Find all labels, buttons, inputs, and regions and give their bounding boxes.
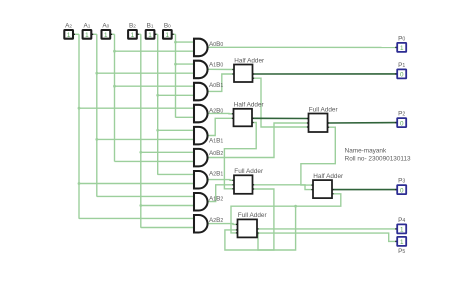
wire A1B0 output to HA1 in1 — [208, 68, 234, 70]
svg-text:A1B2: A1B2 — [209, 196, 223, 203]
wire FA2 carry to FA3 in2 — [225, 189, 274, 250]
subcircuit HA2 (Half Adder) — [232, 102, 265, 127]
wire FA2 sum to HA3 in2 — [253, 185, 314, 190]
node A2-A2B0 — [78, 107, 81, 110]
wire A1B2 output to FA2 in2 — [208, 185, 234, 202]
subcircuit HA1 (Half Adder) — [232, 57, 265, 82]
svg-text:P2: P2 — [398, 111, 405, 118]
wire B0 to gate A1B0 input 1 — [176, 63, 195, 65]
AND gate A0B0 — [194, 39, 223, 57]
wire B1 to gate A0B1 input 2 — [158, 94, 194, 96]
AND gate A1B0 — [194, 61, 223, 78]
node B2-A1B2 — [139, 204, 142, 207]
svg-text:0: 0 — [400, 72, 404, 79]
svg-text:A2B2: A2B2 — [209, 217, 223, 224]
output P3 — [395, 178, 406, 195]
AND gate A1B1 — [194, 127, 223, 145]
wire A2 to gate A2B1 input 2 — [79, 183, 194, 185]
wire HA3 carry to FA3 in3 — [231, 194, 341, 233]
AND gate A2B0 — [194, 105, 223, 123]
wire B1 vertical bus — [157, 34, 159, 175]
wire B0 to gate A2B0 input 2 — [176, 116, 195, 118]
node A2-A2B1 — [78, 182, 81, 185]
svg-text:A2B1: A2B1 — [209, 171, 223, 178]
svg-text:Half Adder: Half Adder — [313, 173, 344, 180]
svg-text:1: 1 — [400, 45, 404, 52]
svg-text:A1B0: A1B0 — [209, 62, 223, 69]
svg-text:Half Adder: Half Adder — [234, 102, 265, 109]
wire B0 to gate A0B0 input 1 — [176, 41, 195, 43]
svg-text:Half Adder: Half Adder — [234, 57, 265, 64]
wire B0 stub — [172, 33, 176, 35]
input A1 — [83, 23, 94, 39]
svg-text:P1: P1 — [398, 62, 405, 69]
wire A1 to gate A1B1 input 2 — [97, 138, 194, 140]
input A0 — [102, 23, 113, 39]
AND gate A0B2 — [194, 149, 223, 167]
wire A0 to gate A0B2 input 2 — [115, 160, 195, 162]
wire A1 vertical bus — [96, 34, 98, 196]
wire A1 to gate A1B2 input 1 — [97, 195, 194, 197]
subcircuit FA3 (Full Adder) — [236, 212, 268, 237]
svg-text:A1B1: A1B1 — [209, 138, 223, 145]
svg-text:1: 1 — [85, 32, 89, 39]
svg-text:A0B0: A0B0 — [209, 41, 223, 48]
input B2 — [128, 23, 139, 39]
AND gate A2B1 — [194, 171, 223, 189]
wire A0 stub — [110, 33, 114, 35]
svg-text:Full Adder: Full Adder — [309, 106, 339, 113]
wire A2 to gate A2B0 input 1 — [79, 107, 194, 109]
svg-text:P4: P4 — [398, 217, 405, 224]
AND gate A0B1 — [194, 82, 223, 100]
svg-text:1: 1 — [400, 239, 404, 246]
node B0-A0B0 — [174, 41, 177, 44]
svg-text:0: 0 — [400, 187, 404, 194]
wire A0B1 output to HA1 in2 — [208, 74, 234, 91]
wire A2 vertical bus — [78, 34, 80, 219]
wire A0B0 output to P0 — [208, 46, 398, 48]
wire B0 vertical bus — [175, 34, 177, 117]
wire HA2 sum to FA1 in1 — [252, 117, 309, 119]
svg-text:1: 1 — [166, 32, 170, 39]
output P0 — [395, 35, 406, 52]
wire FA1 carry to HA3 in1 — [301, 127, 335, 185]
svg-text:1: 1 — [400, 227, 404, 234]
wire B2 stub — [137, 33, 141, 35]
subcircuit FA2 (Full Adder) — [232, 168, 264, 194]
node B2-A0B2 — [139, 151, 142, 154]
output P1 — [395, 62, 406, 79]
wire A0B2 output to FA1 in2 — [208, 123, 309, 158]
svg-text:Roll no- 230090130113: Roll no- 230090130113 — [345, 156, 411, 163]
wire A1 stub — [91, 33, 97, 35]
svg-text:P5: P5 — [398, 248, 405, 255]
wire A0 vertical bus — [114, 34, 116, 161]
node B1-A1B1 — [156, 129, 159, 132]
svg-text:1: 1 — [67, 32, 71, 39]
svg-text:B2: B2 — [129, 23, 136, 30]
svg-text:A2: A2 — [65, 23, 72, 30]
wire A2 stub — [73, 33, 79, 35]
subcircuit FA1 (Full Adder) — [307, 106, 339, 132]
node A1-A1B1 — [95, 138, 98, 141]
svg-text:1: 1 — [104, 32, 108, 39]
node FA3 carry junction — [257, 232, 260, 235]
wire HA2 carry to FA2 in3 — [224, 123, 256, 189]
input B1 — [146, 23, 157, 39]
svg-text:0: 0 — [400, 120, 404, 127]
output P2 — [395, 111, 406, 128]
AND gate A1B2 — [194, 193, 223, 211]
AND gate A2B2 — [194, 215, 223, 233]
wire A1B1 output to HA2 in2 — [208, 118, 234, 135]
wire B2 to gate A2B2 input 2 — [141, 227, 194, 229]
svg-text:B1: B1 — [147, 23, 154, 30]
svg-text:Full Adder: Full Adder — [234, 168, 264, 175]
svg-text:P3: P3 — [398, 178, 405, 185]
svg-text:A0: A0 — [102, 23, 109, 30]
node carry-loop junction — [294, 205, 297, 208]
wire B2 vertical bus — [140, 34, 142, 228]
wire A0 to gate A0B0 input 2 — [115, 50, 195, 52]
wire A2 to gate A2B2 input 1 — [79, 217, 194, 219]
svg-text:A1: A1 — [83, 23, 90, 30]
wire B1 to gate A1B1 input 1 — [158, 129, 194, 131]
wire B1 stub — [154, 33, 157, 35]
svg-text:Full Adder: Full Adder — [238, 212, 268, 219]
node B1-A0B1 — [156, 94, 159, 97]
output P4 — [395, 217, 406, 234]
output P5 — [395, 237, 406, 255]
wire A2B2 output to FA3 in1 — [208, 223, 238, 226]
input A2 — [64, 23, 75, 39]
svg-text:P0: P0 — [398, 35, 405, 42]
wire FA3 carry loop — [258, 206, 296, 250]
wire A2B0 output to HA2 in1 — [208, 112, 234, 114]
svg-text:A2B0: A2B0 — [209, 107, 223, 114]
wire FA1 sum to P2 — [328, 122, 398, 124]
svg-text:A0B1: A0B1 — [209, 82, 223, 89]
node A0-A0B0 — [113, 50, 116, 53]
wire B1 to gate A2B1 input 1 — [158, 173, 194, 175]
wire A1 to gate A1B0 input 2 — [97, 72, 194, 74]
node B0-A1B0 — [174, 63, 177, 66]
node A0-A0B1 — [113, 85, 116, 88]
svg-text:Name-mayank: Name-mayank — [345, 148, 387, 155]
wire FA3 carry to P5 — [257, 233, 397, 241]
wire B2 to gate A0B2 input 1 — [141, 151, 194, 153]
wire A2B1 output to FA2 in1 — [208, 179, 234, 182]
wire HA1 carry to FA1 in3 — [253, 78, 309, 127]
svg-text:A0B2: A0B2 — [209, 150, 223, 157]
wire HA1 sum to P1 — [253, 73, 398, 75]
svg-text:1: 1 — [131, 32, 135, 39]
wire HA3 sum to P3 — [332, 189, 397, 191]
svg-text:B0: B0 — [164, 23, 171, 30]
node A1-A1B0 — [95, 72, 98, 75]
svg-text:1: 1 — [148, 32, 152, 39]
subcircuit HA3 (Half Adder) — [311, 173, 344, 198]
wire B2 to gate A1B2 input 2 — [141, 205, 194, 207]
wire A0 to gate A0B1 input 1 — [115, 85, 195, 87]
input B0 — [163, 23, 174, 39]
wire FA3 sum to P4 — [257, 228, 397, 230]
